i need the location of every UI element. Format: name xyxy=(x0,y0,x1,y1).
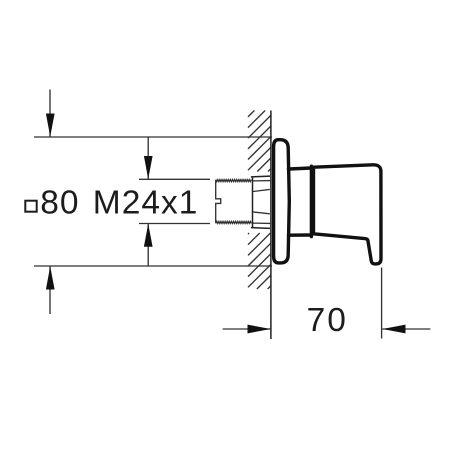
thread extension line upper xyxy=(139,178,210,180)
bonnet facet line upper xyxy=(253,189,270,191)
bonnet facet line lower xyxy=(253,212,270,214)
extension line 70 right xyxy=(381,268,383,339)
neck-handle separator line xyxy=(310,166,313,236)
valve bonnet nut outline xyxy=(251,176,270,228)
thread bottom crest zigzag xyxy=(216,221,252,223)
escutcheon plate xyxy=(274,140,290,263)
wall face line xyxy=(270,111,272,340)
valve neck top edge xyxy=(289,168,312,169)
dimension M24 lower arrow xyxy=(144,224,153,267)
dimension 80 bottom arrow xyxy=(46,266,55,314)
square symbol xyxy=(25,201,36,212)
label M24x1 xyxy=(93,185,199,222)
dimension M24 upper arrow xyxy=(144,137,153,179)
thread left end face with screwdriver slot xyxy=(216,180,221,223)
extension line top (plate top edge) xyxy=(34,136,272,138)
dimension 70 left arrow xyxy=(223,325,271,334)
valve neck bottom edge xyxy=(289,233,312,237)
wall hatch lower section xyxy=(248,233,271,289)
dimension 70 right arrow xyxy=(382,325,430,334)
valve barrel lower line xyxy=(253,222,271,224)
svg-text:80: 80 xyxy=(40,185,79,222)
label 70 xyxy=(307,302,348,339)
svg-text:70: 70 xyxy=(307,302,348,339)
handle outline xyxy=(314,165,382,264)
thread extension line lower xyxy=(139,223,210,225)
extension line bottom (plate bottom edge) xyxy=(34,265,272,267)
thread top crest zigzag xyxy=(216,180,252,182)
wall hatch upper section xyxy=(248,111,271,172)
label 80 xyxy=(40,185,79,222)
valve barrel upper line xyxy=(253,180,271,182)
svg-text:M24x1: M24x1 xyxy=(93,185,199,222)
dimension 80 top arrow xyxy=(46,90,55,138)
